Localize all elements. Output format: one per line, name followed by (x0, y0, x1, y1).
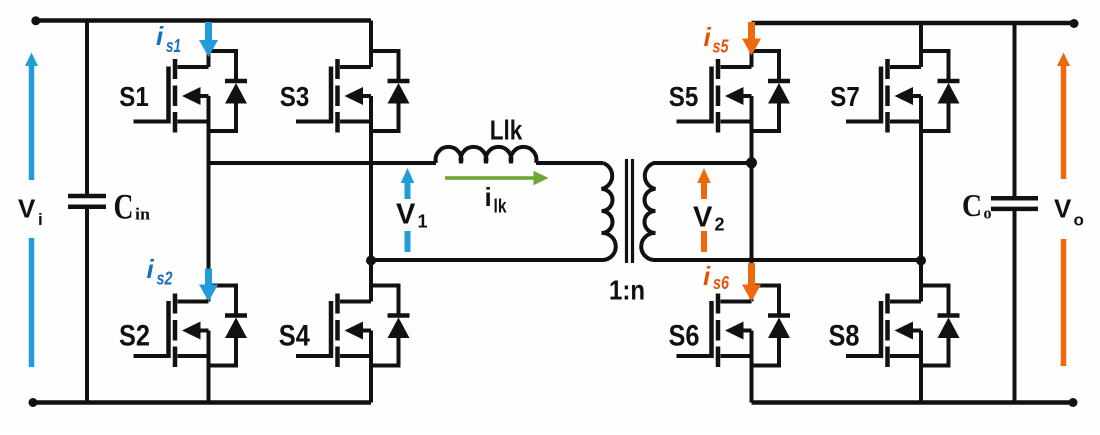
transistor S5 (677, 59, 752, 133)
body diode of S7 (921, 51, 960, 131)
svg-text:S3: S3 (280, 81, 310, 112)
label is1 (156, 21, 181, 56)
svg-text:V: V (396, 199, 416, 231)
wire bottom rail (output side) (752, 400, 1074, 405)
current arrow is1 (199, 22, 218, 57)
label Co (962, 187, 992, 223)
node dot bottom-left (29, 398, 38, 407)
svg-text:C: C (114, 187, 134, 227)
label V2 (693, 202, 725, 235)
svg-text:i: i (147, 254, 155, 284)
node dot top-left (31, 16, 40, 25)
label ilk (485, 182, 507, 218)
svg-text:S7: S7 (830, 81, 860, 112)
current arrow ilk (445, 171, 549, 185)
capacitor Co (1013, 23, 1017, 196)
wire top rail (output side) (752, 21, 1075, 26)
inductor Llk (436, 147, 537, 163)
body diode of S4 (371, 286, 410, 366)
label Vo (1054, 194, 1084, 230)
voltage arrow V2 (697, 168, 711, 252)
label V1 (396, 199, 428, 232)
svg-text:s1: s1 (166, 36, 181, 56)
wire inductor to transformer primary (536, 161, 603, 165)
svg-text:V: V (1054, 194, 1072, 224)
capacitor Cin (85, 21, 89, 195)
svg-text:S6: S6 (669, 320, 700, 353)
transistor S6 (677, 294, 752, 368)
svg-text:Llk: Llk (490, 115, 523, 146)
body diode of S5 (752, 51, 791, 131)
label is6 (703, 261, 730, 293)
wire phase A to inductor (209, 161, 437, 165)
voltage arrow Vi (25, 53, 38, 368)
transistor S3 (296, 59, 371, 133)
label is2 (147, 254, 173, 289)
transformer core (625, 159, 628, 263)
transformer primary winding (371, 163, 616, 260)
transistor S8 (846, 294, 921, 368)
svg-text:1:n: 1:n (609, 275, 645, 306)
svg-text:o: o (1074, 211, 1084, 230)
wire leg A (S1/S2) (207, 21, 211, 403)
label Cin (114, 187, 151, 227)
svg-text:2: 2 (715, 215, 725, 235)
svg-text:S8: S8 (829, 320, 860, 353)
transistor S4 (296, 294, 371, 368)
voltage arrow Vo (1057, 53, 1070, 367)
body diode of S6 (752, 286, 791, 366)
svg-text:1: 1 (418, 212, 428, 232)
svg-text:i: i (156, 21, 164, 51)
label is5 (704, 22, 730, 57)
svg-text:V: V (18, 194, 36, 224)
wire bottom rail (input side) (33, 400, 371, 405)
svg-text:i: i (704, 22, 712, 52)
transistor S2 (134, 294, 209, 368)
wire leg D (S7/S8) (919, 23, 923, 403)
svg-text:o: o (984, 204, 992, 223)
current arrow is6 (742, 263, 761, 302)
body diode of S3 (371, 51, 410, 131)
transistor S1 (134, 59, 209, 133)
voltage arrow V1 (401, 168, 415, 252)
svg-text:S1: S1 (119, 81, 149, 112)
transistor S7 (846, 59, 921, 133)
svg-text:lk: lk (494, 197, 507, 218)
svg-text:S5: S5 (669, 81, 699, 112)
body diode of S2 (209, 286, 248, 366)
label Vi (18, 194, 43, 230)
svg-text:i: i (38, 210, 43, 229)
current arrow is5 (742, 22, 761, 56)
svg-text:S2: S2 (119, 320, 150, 353)
svg-text:s2: s2 (157, 269, 173, 289)
svg-text:i: i (485, 182, 492, 212)
body diode of S1 (209, 51, 248, 131)
svg-text:V: V (693, 202, 713, 234)
svg-text:C: C (962, 187, 982, 223)
wire leg B (S3/S4) (369, 21, 373, 403)
node dot top-right (1070, 19, 1079, 28)
wire top rail (input side) (36, 18, 371, 23)
body diode of S8 (921, 286, 960, 366)
svg-text:i: i (703, 261, 711, 291)
node D (secondary bottom to leg D) (916, 256, 926, 266)
node dot bottom-right (1069, 398, 1078, 407)
wire leg C (S5/S6) (750, 23, 754, 403)
svg-text:s5: s5 (713, 37, 730, 57)
current arrow is2 (199, 269, 218, 302)
svg-text:in: in (135, 205, 151, 224)
node B (leg B to primary bottom) (366, 256, 376, 266)
node C (secondary top to leg C) (746, 157, 757, 168)
svg-text:s6: s6 (713, 273, 730, 293)
transformer secondary winding (641, 163, 921, 260)
svg-text:S4: S4 (279, 320, 310, 353)
